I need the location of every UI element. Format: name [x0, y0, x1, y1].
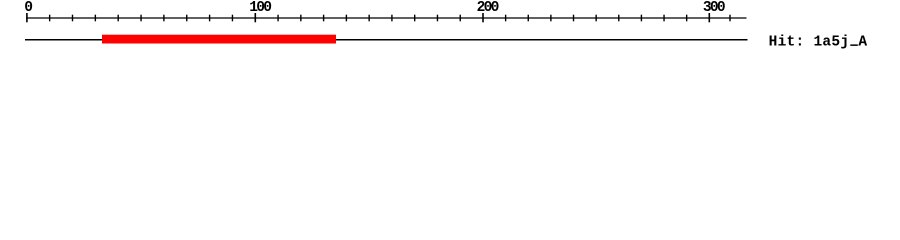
- underscore of hit label: [850, 44, 858, 46]
- hit red bar: [102, 35, 336, 44]
- major tick 100: [254, 13, 256, 22]
- major tick 0: [26, 13, 28, 22]
- major tick 200: [482, 13, 484, 22]
- svg-text:100: 100: [249, 0, 271, 16]
- major tick 300: [708, 13, 710, 22]
- hit line: [25, 39, 748, 41]
- minor ticks: [50, 15, 730, 22]
- svg-text:Hit: 1a5j_A: Hit: 1a5j_A: [769, 35, 868, 51]
- svg-text:200: 200: [477, 0, 499, 16]
- svg-text:300: 300: [703, 0, 725, 16]
- svg-text:0: 0: [24, 0, 32, 16]
- ruler baseline: [26, 17, 746, 19]
